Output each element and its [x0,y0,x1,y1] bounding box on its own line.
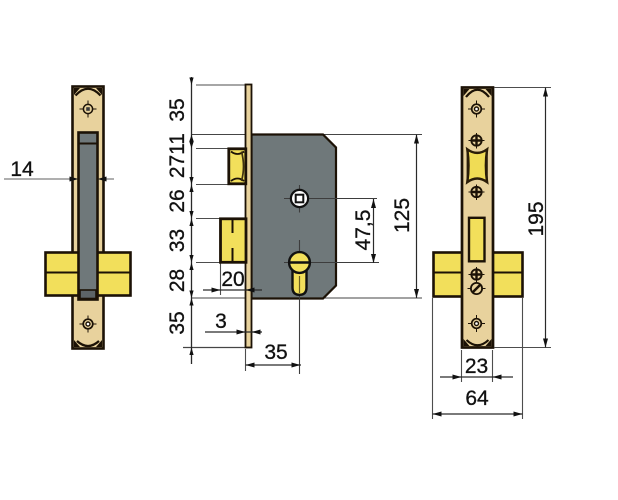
svg-text:27: 27 [166,155,189,178]
latch bar left view [79,133,98,300]
svg-text:23: 23 [465,355,488,378]
screw slashed right view [468,283,486,294]
screw phillips mid right view [469,185,485,201]
wire ext latch bottom [196,184,230,186]
faceplate left view [73,87,104,349]
wire ext top plate [196,84,246,86]
dimension 23 [440,350,513,382]
arch top [76,89,101,96]
screw phillips lower right view [469,267,485,283]
wire ext plate bottom down [245,349,247,371]
wire ext body top long [191,134,422,136]
svg-text:26: 26 [166,189,189,212]
screw top right view [468,101,485,118]
dimension 35 bottom [246,341,302,368]
screw bottom right view [468,315,485,332]
spindle hub [284,185,377,213]
wire ext plate bottom [183,347,246,349]
svg-text:195: 195 [525,201,548,236]
chain labels [166,98,189,334]
faceplate right view [462,88,493,348]
svg-text:33: 33 [166,229,189,252]
dimension 47,5 [352,199,376,263]
latch right view [467,149,487,182]
svg-text:35: 35 [166,98,189,121]
svg-text:20: 20 [221,268,244,291]
dimension 20 [203,268,262,293]
dimension 64 [433,298,523,419]
wire ext bolt-20 vertical [220,263,222,295]
wire ext bolt top [196,218,221,220]
deadbolt block left view [46,253,131,296]
dimension 3 [205,310,262,335]
deadbolt side view [221,219,247,262]
svg-text:35: 35 [166,311,189,334]
chain dimension line left [191,77,193,364]
svg-text:14: 14 [10,158,34,181]
svg-text:47,5: 47,5 [352,210,375,251]
lock body [252,135,337,299]
svg-text:3: 3 [215,310,227,333]
latch side view [229,149,246,184]
wire ext bolt bottom [196,262,221,264]
svg-text:64: 64 [465,387,489,410]
dimension 14 [10,158,106,182]
cylinder [284,240,379,374]
screw phillips upper right view [469,133,485,149]
svg-text:28: 28 [166,269,189,292]
screw top left view [80,101,97,118]
faceplate edge view [246,85,252,348]
deadbolt slot right view [469,218,485,261]
svg-text:125: 125 [391,198,414,233]
svg-text:35: 35 [264,341,287,364]
dimension 195 [494,88,551,348]
wire 14-leader [4,178,114,180]
wire ext latch top [196,148,230,150]
arch bottom [77,341,99,346]
screw bottom left view [80,316,97,333]
svg-text:11: 11 [166,133,189,155]
wire ext body bottom long [191,297,422,299]
dimension 125 [391,135,419,299]
deadbolt block right view [434,253,523,297]
chain arrows [189,78,193,356]
